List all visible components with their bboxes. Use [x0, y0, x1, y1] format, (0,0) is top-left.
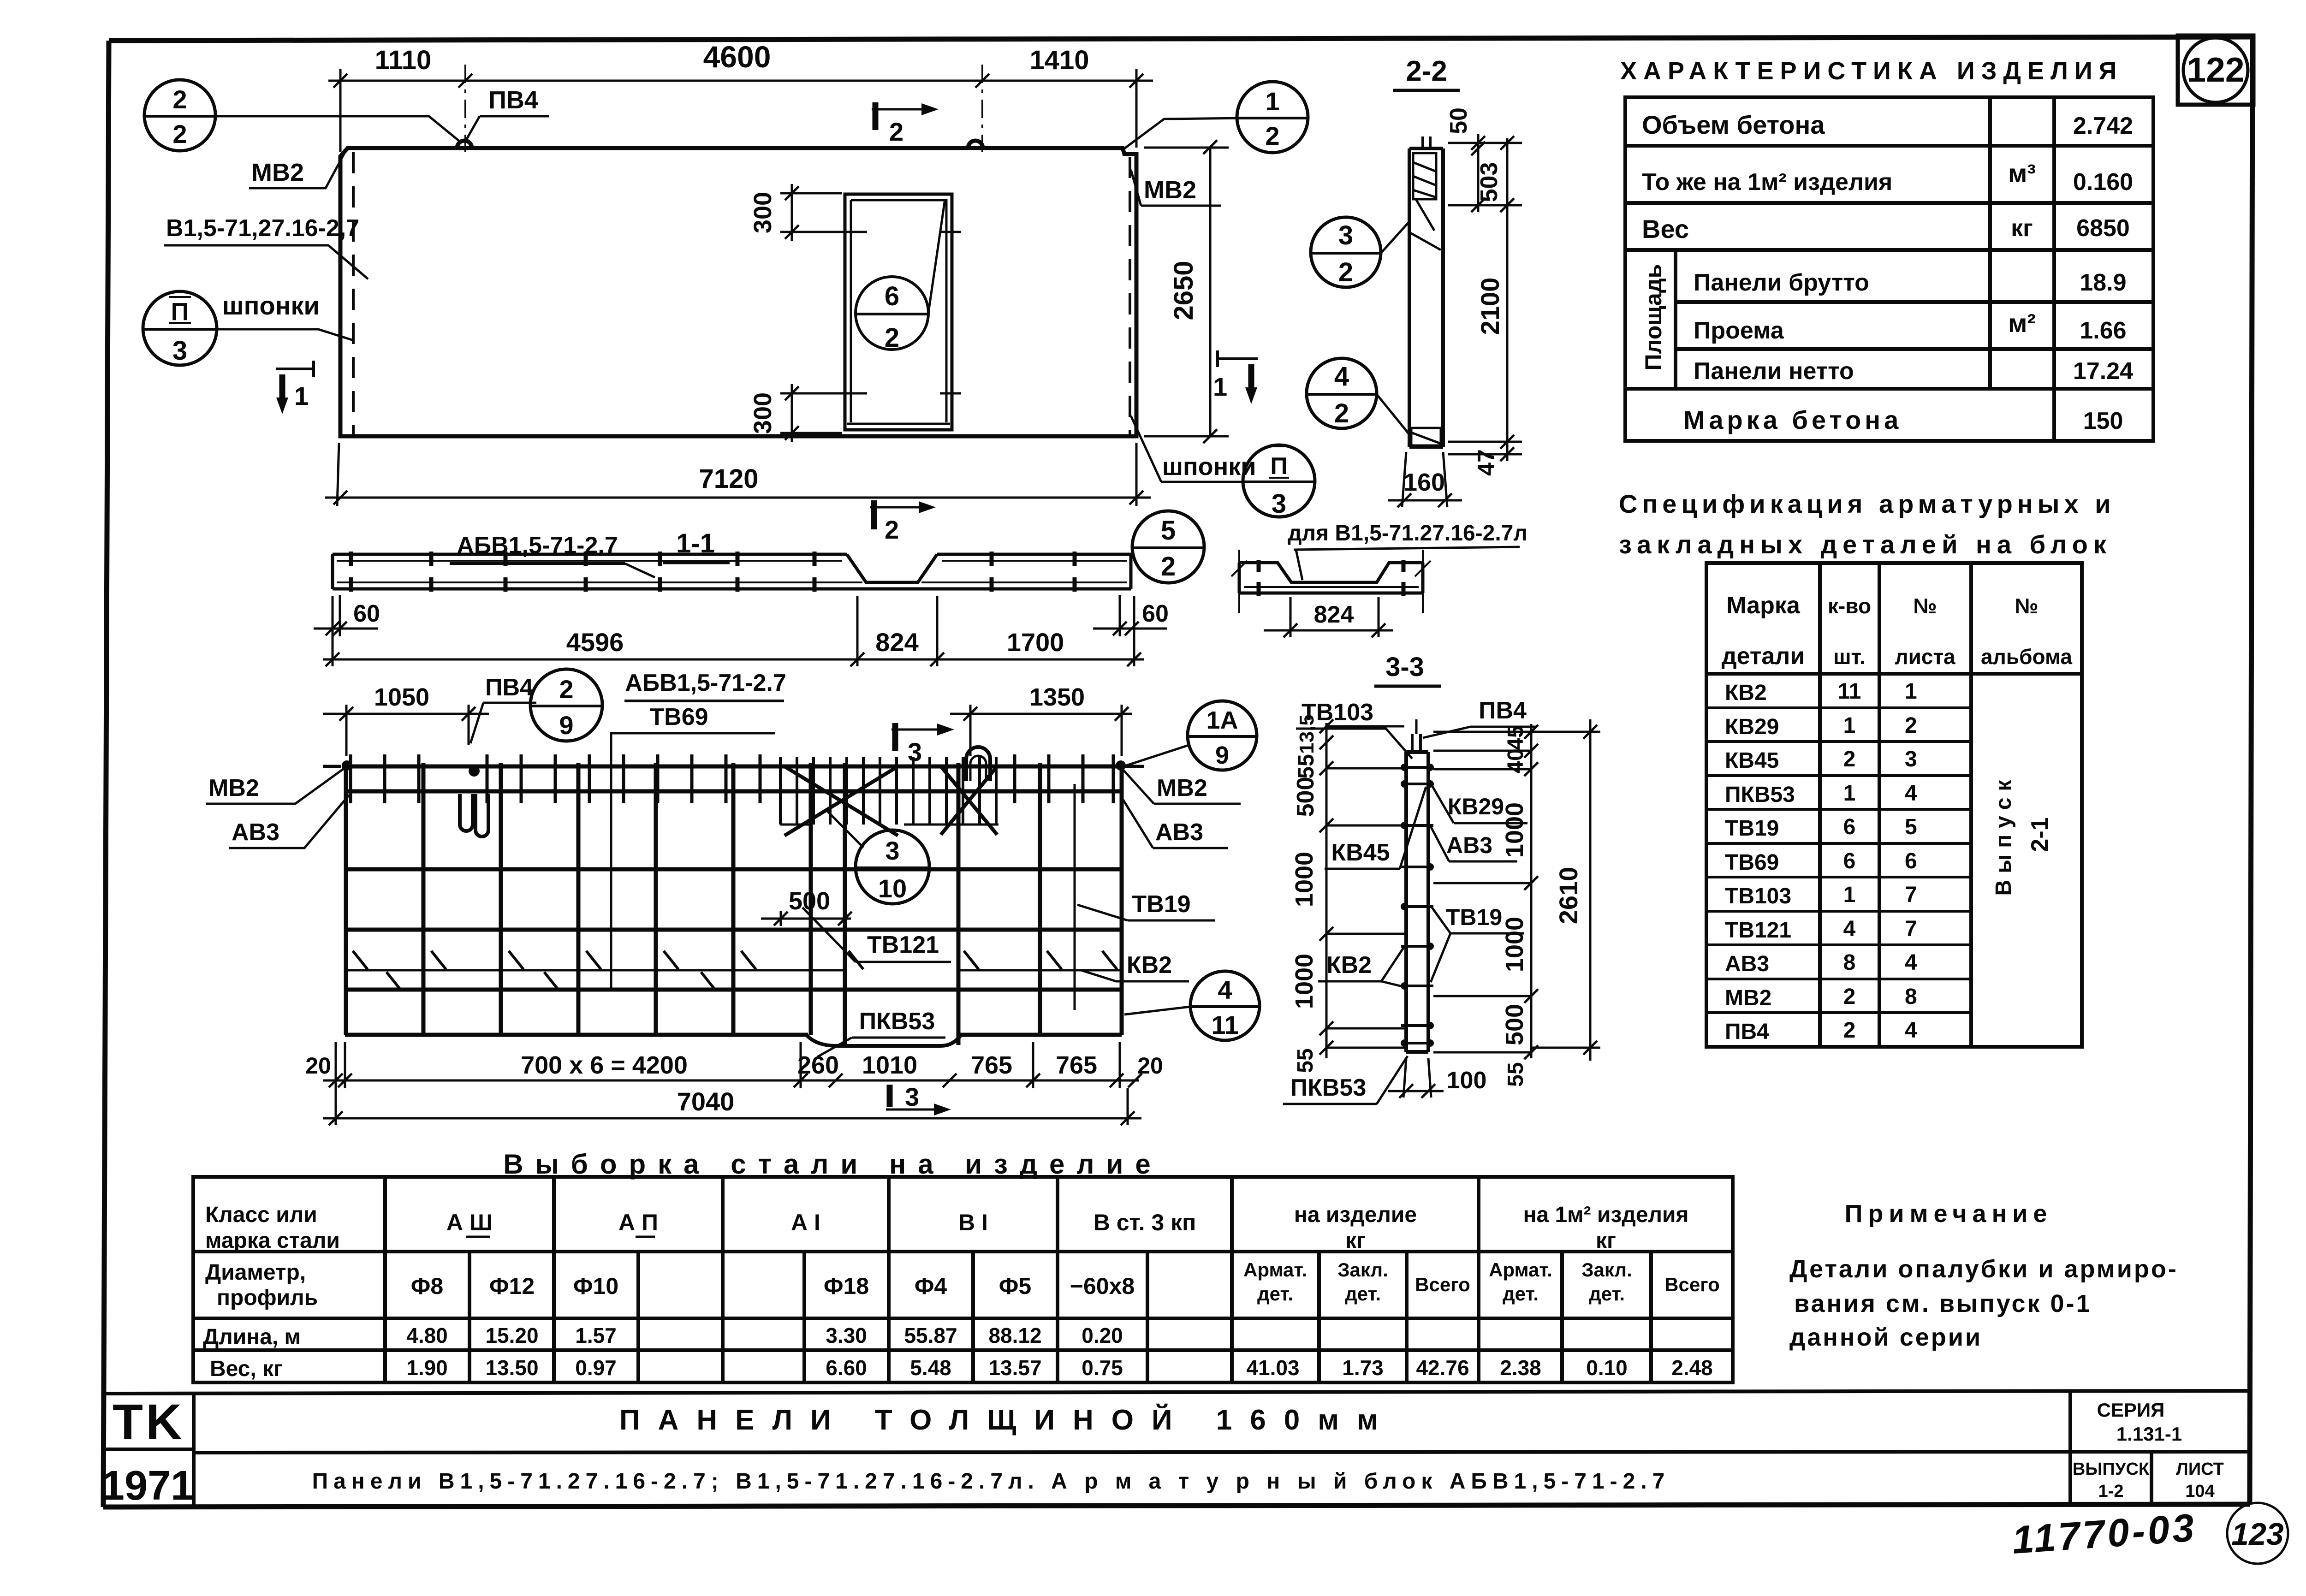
steel table grid — [193, 1177, 1733, 1382]
svg-text:МВ2: МВ2 — [1144, 176, 1196, 204]
svg-text:1: 1 — [294, 381, 309, 410]
svg-text:55: 55 — [1504, 1062, 1528, 1086]
svg-text:Ф4: Ф4 — [915, 1273, 947, 1299]
svg-text:Выборка стали на изделие: Выборка стали на изделие — [503, 1149, 1163, 1180]
MV2 label left rebar — [323, 765, 341, 768]
svg-text:TK: TK — [113, 1394, 184, 1449]
svg-text:1: 1 — [1905, 679, 1917, 704]
svg-text:Армат.: Армат. — [1489, 1259, 1552, 1281]
strip dim chain 4596 824 1700 — [323, 596, 1144, 666]
svg-text:шт.: шт. — [1833, 645, 1866, 669]
svg-text:дет.: дет. — [1257, 1283, 1293, 1305]
panel shponka dashed line right — [1129, 157, 1131, 434]
svg-text:Панели брутто: Панели брутто — [1694, 269, 1869, 296]
svg-text:2: 2 — [1265, 121, 1279, 150]
svg-text:АБВ1,5-71-2.7: АБВ1,5-71-2.7 — [625, 670, 786, 696]
svg-text:9: 9 — [1215, 742, 1229, 769]
svg-text:13.57: 13.57 — [988, 1356, 1041, 1380]
svg-text:2650: 2650 — [1169, 261, 1199, 320]
label MV2 left — [249, 152, 345, 188]
svg-text:альбома: альбома — [1981, 645, 2072, 669]
svg-text:А Ш: А Ш — [446, 1210, 493, 1235]
dim 7120 bottom — [325, 443, 1151, 506]
svg-text:60: 60 — [353, 600, 380, 627]
svg-text:1010: 1010 — [862, 1051, 917, 1079]
svg-text:1000: 1000 — [1290, 954, 1318, 1009]
svg-text:КВ29: КВ29 — [1725, 715, 1779, 739]
callout circle 3/10 — [856, 830, 929, 904]
callout circle 1/2 — [1124, 82, 1308, 153]
longitudinal bars — [345, 869, 1122, 990]
svg-text:ПКВ53: ПКВ53 — [859, 1008, 935, 1035]
svg-text:1410: 1410 — [1029, 45, 1089, 75]
svg-text:11: 11 — [1838, 679, 1861, 704]
dim 7040 — [323, 1088, 1141, 1125]
svg-text:123: 123 — [2231, 1517, 2284, 1552]
svg-text:1000: 1000 — [1501, 917, 1528, 972]
svg-text:1110: 1110 — [375, 45, 432, 75]
svg-text:Панели нетто: Панели нетто — [1694, 358, 1854, 385]
svg-text:1.90: 1.90 — [406, 1356, 448, 1380]
callout circle 3/2 — [1311, 217, 1410, 287]
svg-text:ТВ103: ТВ103 — [1725, 884, 1791, 908]
dim 300 upper at opening — [780, 184, 867, 241]
svg-text:1-2: 1-2 — [2098, 1482, 2124, 1501]
svg-text:МВ2: МВ2 — [208, 775, 259, 801]
svg-text:10: 10 — [878, 874, 907, 903]
svg-text:500: 500 — [789, 887, 830, 915]
svg-text:1050: 1050 — [374, 683, 429, 711]
svg-text:4: 4 — [1843, 917, 1856, 941]
svg-text:4: 4 — [1905, 1018, 1917, 1043]
right piece end cut marks — [1231, 550, 1431, 613]
svg-text:260: 260 — [797, 1051, 839, 1079]
svg-text:П: П — [1270, 453, 1287, 480]
svg-text:15.20: 15.20 — [485, 1323, 538, 1347]
bottom edge bar — [345, 1033, 1122, 1037]
svg-text:700 х 6 = 4200: 700 х 6 = 4200 — [521, 1051, 688, 1079]
svg-text:1.57: 1.57 — [575, 1323, 617, 1347]
svg-text:2: 2 — [1338, 257, 1353, 287]
svg-text:АВ3: АВ3 — [1446, 832, 1492, 858]
svg-text:КВ2: КВ2 — [1127, 952, 1172, 979]
svg-text:7: 7 — [1905, 883, 1917, 907]
opening side ticks bottom — [836, 392, 857, 395]
svg-text:1000: 1000 — [1290, 852, 1318, 907]
svg-text:1: 1 — [1265, 87, 1279, 116]
label MV2 right — [1131, 170, 1221, 206]
label B1.5-71.27.16-2.7 — [164, 215, 368, 279]
svg-text:4: 4 — [1905, 781, 1917, 806]
svg-text:3.30: 3.30 — [826, 1323, 867, 1347]
svg-text:КВ45: КВ45 — [1331, 839, 1390, 866]
svg-text:−60х8: −60х8 — [1070, 1273, 1135, 1299]
section 2-2 loop stub above — [1421, 136, 1424, 148]
svg-text:ТВ19: ТВ19 — [1446, 904, 1502, 930]
svg-text:ТВ19: ТВ19 — [1132, 891, 1190, 918]
svg-text:2: 2 — [889, 117, 903, 146]
svg-text:Ф18: Ф18 — [824, 1273, 869, 1299]
svg-text:В ст. 3 кп: В ст. 3 кп — [1094, 1210, 1196, 1235]
svg-text:6: 6 — [885, 281, 899, 311]
svg-text:11: 11 — [1211, 1010, 1238, 1039]
svg-text:4596: 4596 — [566, 628, 624, 657]
KV2 thin bar line — [345, 969, 1122, 972]
dense comb of ticks at opening zone — [780, 757, 996, 825]
svg-text:4.80: 4.80 — [406, 1323, 448, 1347]
axis centerlines — [464, 65, 466, 152]
svg-text:АВ3: АВ3 — [1155, 819, 1203, 846]
callout circle 4/2 — [1307, 358, 1409, 433]
TV69 bar thin vertical — [610, 732, 612, 991]
svg-text:9: 9 — [559, 711, 573, 740]
svg-text:вания см. выпуск 0-1: вания см. выпуск 0-1 — [1794, 1290, 2092, 1317]
svg-text:Класс или: Класс или — [205, 1203, 317, 1227]
svg-text:2.38: 2.38 — [1500, 1356, 1541, 1380]
svg-text:2.48: 2.48 — [1671, 1356, 1713, 1380]
MV2 label right rebar — [1125, 765, 1144, 768]
svg-text:марка стали: марка стали — [205, 1228, 340, 1253]
svg-text:503: 503 — [1476, 162, 1503, 202]
section mark 3 bottom — [887, 1085, 893, 1107]
svg-text:ПВ4: ПВ4 — [485, 674, 533, 701]
svg-text:7: 7 — [1905, 917, 1917, 941]
svg-text:2100: 2100 — [1475, 278, 1504, 335]
svg-text:Марка бетона: Марка бетона — [1683, 405, 1902, 434]
svg-text:20: 20 — [1137, 1053, 1163, 1079]
label shponki left — [218, 291, 353, 340]
TV121 diagonal braces — [785, 766, 997, 836]
svg-text:А I: А I — [791, 1210, 820, 1235]
svg-text:№: № — [1913, 594, 1937, 618]
svg-text:закладных деталей на блок: закладных деталей на блок — [1619, 530, 2112, 559]
title block — [103, 1391, 2250, 1507]
door opening inner — [851, 200, 946, 422]
strip dim 60 left — [314, 595, 378, 636]
svg-text:1971: 1971 — [101, 1463, 194, 1509]
svg-text:№: № — [2015, 594, 2038, 618]
svg-text:824: 824 — [1314, 601, 1354, 628]
roman numeral underlines — [466, 1236, 490, 1238]
svg-text:300: 300 — [749, 392, 777, 434]
svg-text:3: 3 — [1338, 220, 1353, 250]
svg-text:2: 2 — [885, 515, 899, 544]
svg-text:ПКВ53: ПКВ53 — [1725, 783, 1795, 807]
svg-text:м³: м³ — [2008, 159, 2036, 188]
svg-text:кг: кг — [2011, 215, 2033, 242]
section mark 2 top — [872, 102, 939, 146]
svg-text:6: 6 — [1843, 849, 1856, 873]
svg-text:500: 500 — [1501, 1004, 1528, 1045]
svg-text:кг: кг — [1345, 1228, 1366, 1253]
callout circle 1A/9 — [1188, 701, 1257, 770]
section 2-2 dim chain 50 503 — [1448, 134, 1522, 212]
svg-text:7120: 7120 — [699, 464, 758, 494]
svg-text:Всего: Всего — [1415, 1274, 1470, 1295]
svg-text:0.20: 0.20 — [1082, 1323, 1123, 1347]
svg-text:КВ45: КВ45 — [1725, 748, 1779, 773]
svg-text:А П: А П — [618, 1210, 658, 1235]
svg-text:4: 4 — [1334, 362, 1349, 392]
svg-text:8: 8 — [1843, 950, 1856, 975]
svg-text:Закл.: Закл. — [1337, 1259, 1388, 1281]
svg-text:КВ2: КВ2 — [1326, 952, 1372, 979]
svg-text:2-2: 2-2 — [1406, 55, 1447, 87]
callout circle 2/2 — [144, 80, 459, 151]
svg-text:0.97: 0.97 — [575, 1356, 617, 1380]
svg-text:2: 2 — [1843, 747, 1856, 771]
svg-text:2: 2 — [1843, 985, 1856, 1009]
section 3-3 column body — [1406, 752, 1428, 1052]
svg-text:МВ2: МВ2 — [1725, 986, 1771, 1010]
svg-text:ТВ19: ТВ19 — [1725, 816, 1779, 841]
svg-text:ЛИСТ: ЛИСТ — [2176, 1460, 2224, 1479]
svg-text:м²: м² — [2008, 309, 2036, 338]
svg-text:765: 765 — [971, 1051, 1012, 1079]
svg-text:кг: кг — [1596, 1228, 1616, 1253]
svg-text:То же на 1м² изделия: То же на 1м² изделия — [1642, 169, 1892, 196]
svg-text:Ф8: Ф8 — [411, 1273, 443, 1299]
rebar top chord bars — [345, 766, 1122, 791]
callout circle 5/2 — [1132, 511, 1204, 583]
svg-text:СЕРИЯ: СЕРИЯ — [2097, 1399, 2165, 1421]
svg-text:7040: 7040 — [677, 1087, 735, 1116]
svg-text:листа: листа — [1895, 645, 1955, 669]
svg-text:1700: 1700 — [1007, 628, 1064, 657]
top dimension line 1110 4600 1410 — [328, 69, 1153, 152]
left dim chain of section 3-3 — [1319, 719, 1404, 1058]
callout circle II/3 bottom right — [1243, 445, 1315, 519]
svg-text:ПКВ53: ПКВ53 — [1290, 1074, 1367, 1101]
svg-text:122: 122 — [2187, 50, 2244, 89]
svg-text:47: 47 — [1473, 449, 1500, 476]
specification table grid — [1706, 563, 2082, 1047]
svg-text:профиль: профиль — [217, 1286, 318, 1310]
svg-text:17.24: 17.24 — [2073, 358, 2133, 385]
svg-text:3: 3 — [1905, 747, 1917, 771]
section 2-2 dim chain 2100 47 — [1448, 136, 1522, 461]
svg-text:1000: 1000 — [1501, 802, 1528, 858]
svg-text:2.742: 2.742 — [2073, 113, 2133, 139]
svg-text:5: 5 — [1161, 516, 1176, 546]
svg-text:Выпуск: Выпуск — [1991, 774, 2016, 896]
svg-text:ПВ4: ПВ4 — [1725, 1020, 1769, 1044]
svg-text:детали: детали — [1722, 643, 1805, 670]
svg-text:АВ3: АВ3 — [232, 819, 279, 846]
svg-text:3: 3 — [1272, 489, 1286, 519]
svg-text:Площадь: Площадь — [1640, 264, 1666, 371]
svg-text:1.66: 1.66 — [2080, 317, 2126, 344]
lifting loop PV4 right on top edge — [968, 141, 983, 148]
svg-text:2: 2 — [1843, 1018, 1856, 1043]
svg-text:765: 765 — [1056, 1051, 1097, 1079]
dim 300 lower at opening — [780, 384, 867, 442]
svg-text:5: 5 — [1905, 815, 1917, 839]
svg-text:1: 1 — [1843, 713, 1856, 738]
svg-text:1: 1 — [1843, 781, 1856, 806]
spec rows — [1725, 679, 1917, 1044]
tie ticks across column — [1401, 767, 1433, 1043]
svg-text:МВ2: МВ2 — [251, 159, 304, 186]
overall dim 2610 — [1531, 719, 1600, 1061]
svg-text:ТВ121: ТВ121 — [867, 931, 939, 958]
sheet number box 122 — [2178, 36, 2253, 105]
label PV4 top — [466, 86, 549, 140]
svg-text:ТВ69: ТВ69 — [1725, 850, 1779, 875]
svg-text:55: 55 — [1293, 1048, 1318, 1073]
svg-text:2: 2 — [1334, 398, 1349, 428]
panel shponka dashed line left — [352, 152, 355, 434]
svg-text:20: 20 — [305, 1053, 331, 1079]
svg-text:60: 60 — [1142, 600, 1169, 627]
strip dim 60 right — [1093, 595, 1167, 636]
svg-text:6: 6 — [1843, 815, 1856, 839]
lifting loop PV4 left on top edge — [457, 141, 472, 148]
svg-text:КВ2: КВ2 — [1725, 681, 1767, 705]
dim 500 — [761, 911, 852, 926]
svg-text:2: 2 — [1161, 552, 1176, 581]
svg-text:дет.: дет. — [1345, 1283, 1381, 1305]
svg-text:0.160: 0.160 — [2073, 169, 2133, 196]
callout circle II/3 shponki left — [143, 291, 217, 366]
svg-text:Длина, м: Длина, м — [203, 1325, 301, 1349]
svg-text:Спецификация арматурных и: Спецификация арматурных и — [1619, 489, 2116, 518]
panel outline — [340, 148, 1136, 436]
svg-text:Объем бетона: Объем бетона — [1642, 110, 1825, 139]
section 2-2 top key detail with hatch — [1410, 153, 1441, 250]
svg-text:для В1,5-71.27.16-2.7л: для В1,5-71.27.16-2.7л — [1288, 521, 1527, 546]
bottom dim chain 20 700x6 260 1010 765 765 20 — [323, 1042, 1142, 1088]
svg-text:дет.: дет. — [1503, 1283, 1539, 1305]
svg-text:2: 2 — [559, 675, 573, 704]
svg-text:ПАНЕЛИ ТОЛЩИНОЙ 160мм: ПАНЕЛИ ТОЛЩИНОЙ 160мм — [619, 1404, 1396, 1436]
svg-text:104: 104 — [2185, 1482, 2214, 1501]
svg-text:ТВ103: ТВ103 — [1302, 699, 1373, 726]
svg-text:2: 2 — [172, 85, 187, 114]
right dim chain of section 3-3 — [1433, 724, 1538, 1059]
svg-text:Закл.: Закл. — [1581, 1259, 1632, 1281]
svg-text:1.131-1: 1.131-1 — [2116, 1423, 2182, 1445]
transverse bar ticks on top chord — [351, 754, 1113, 803]
svg-text:2-1: 2-1 — [2027, 817, 2053, 852]
svg-text:ПВ4: ПВ4 — [1479, 697, 1527, 724]
svg-text:МВ2: МВ2 — [1157, 775, 1207, 801]
svg-text:2610: 2610 — [1554, 867, 1583, 925]
dim 100 bottom of 3-3 — [1388, 1058, 1444, 1098]
svg-text:6850: 6850 — [2076, 215, 2130, 242]
svg-text:3: 3 — [885, 836, 899, 865]
right piece rebar ticks — [1259, 560, 1403, 596]
svg-text:ТВ121: ТВ121 — [1725, 918, 1791, 943]
svg-text:КВ29: КВ29 — [1448, 794, 1504, 819]
section 2-2 bottom foot detail — [1411, 428, 1441, 445]
section mark 3 top — [892, 723, 898, 751]
anchor hooks on KV2 bar — [353, 951, 1117, 969]
svg-text:Ф12: Ф12 — [489, 1273, 535, 1299]
svg-text:Всего: Всего — [1664, 1274, 1720, 1295]
handwritten page circle 123 — [2227, 1503, 2288, 1564]
svg-text:40: 40 — [1504, 748, 1528, 773]
svg-text:Вес: Вес — [1642, 214, 1689, 243]
svg-text:150: 150 — [2083, 408, 2123, 434]
svg-text:к-во: к-во — [1828, 594, 1871, 618]
svg-text:ПВ4: ПВ4 — [488, 86, 538, 114]
svg-text:5.48: 5.48 — [910, 1356, 951, 1380]
svg-text:3: 3 — [905, 1082, 919, 1111]
svg-text:Детали опалубки и армиро-: Детали опалубки и армиро- — [1789, 1255, 2178, 1283]
svg-text:6.60: 6.60 — [826, 1356, 867, 1380]
svg-text:2: 2 — [1905, 713, 1917, 738]
svg-text:8: 8 — [1905, 985, 1917, 1009]
svg-text:ВЫПУСК: ВЫПУСК — [2073, 1460, 2150, 1479]
dim 1350 — [950, 705, 1132, 756]
svg-text:824: 824 — [875, 628, 918, 657]
svg-text:1.73: 1.73 — [1342, 1356, 1384, 1380]
svg-text:3: 3 — [908, 737, 922, 766]
callout circle 4/11 — [1190, 971, 1260, 1040]
svg-text:3: 3 — [172, 336, 187, 366]
svg-text:В I: В I — [958, 1210, 988, 1235]
opening side ticks top — [836, 231, 857, 233]
characteristics table grid — [1625, 97, 2153, 441]
svg-text:шпонки: шпонки — [222, 291, 320, 320]
lifting loop PV4 hook in rebar plan — [460, 794, 473, 831]
section mark 1 left — [276, 361, 315, 414]
svg-text:4: 4 — [1905, 950, 1917, 975]
rebar dots — [1401, 780, 1408, 788]
svg-text:160: 160 — [1403, 469, 1445, 496]
svg-text:на изделие: на изделие — [1294, 1203, 1417, 1227]
dim 2650 right side — [1144, 140, 1229, 443]
svg-text:Ф10: Ф10 — [573, 1273, 618, 1299]
svg-text:45: 45 — [1504, 725, 1528, 750]
section mark 1 right — [1213, 350, 1258, 404]
svg-text:0.75: 0.75 — [1082, 1356, 1123, 1380]
svg-text:2: 2 — [172, 119, 187, 148]
svg-text:88.12: 88.12 — [988, 1323, 1041, 1347]
svg-text:50: 50 — [1445, 107, 1472, 134]
svg-text:Примечание: Примечание — [1845, 1200, 2053, 1228]
svg-text:6: 6 — [1905, 849, 1917, 873]
svg-text:П: П — [171, 298, 189, 326]
svg-text:1350: 1350 — [1029, 683, 1085, 711]
section 2-2 dim 160 — [1388, 452, 1462, 507]
svg-text:на 1м² изделия: на 1м² изделия — [1523, 1203, 1688, 1227]
svg-text:1: 1 — [1843, 883, 1856, 907]
right piece dim 824 — [1264, 597, 1393, 637]
svg-text:Марка: Марка — [1726, 592, 1801, 619]
svg-text:1А: 1А — [1206, 706, 1238, 734]
svg-text:Панели В1,5-71.27.16-2.7; В1,: Панели В1,5-71.27.16-2.7; В1,5-71.27.16-… — [312, 1469, 1670, 1494]
svg-text:Вес, кг: Вес, кг — [210, 1357, 283, 1381]
vertical bars — [346, 763, 1122, 1045]
svg-text:42.76: 42.76 — [1416, 1356, 1469, 1380]
svg-text:55: 55 — [1294, 754, 1319, 778]
svg-text:100: 100 — [1447, 1067, 1487, 1094]
lifting loop PV4 loop right in rebar plan — [966, 747, 990, 781]
section 2-2 panel column body — [1409, 148, 1443, 447]
svg-text:В1,5-71,27.16-2,7: В1,5-71,27.16-2,7 — [166, 215, 359, 242]
svg-text:Ф5: Ф5 — [999, 1273, 1031, 1299]
PKV53 loop dip at bottom — [806, 1035, 961, 1046]
svg-text:13.50: 13.50 — [485, 1356, 538, 1380]
svg-text:18.9: 18.9 — [2080, 269, 2126, 296]
svg-text:55.87: 55.87 — [904, 1323, 957, 1347]
dim 1050 — [323, 705, 489, 756]
svg-text:Диаметр,: Диаметр, — [205, 1260, 306, 1285]
section mark 2 bottom — [870, 500, 936, 544]
svg-text:ХАРАКТЕРИСТИКА ИЗДЕЛИЯ: ХАРАКТЕРИСТИКА ИЗДЕЛИЯ — [1620, 57, 2123, 85]
